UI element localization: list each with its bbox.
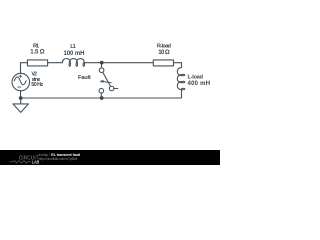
V2 plus sign bbox=[19, 75, 22, 78]
svg-text:L1: L1 bbox=[70, 44, 75, 50]
resistor R-load bbox=[153, 60, 173, 66]
svg-text:http://circuitlab.com/c/7p65ct: http://circuitlab.com/c/7p65ct bbox=[39, 157, 79, 161]
wire L1 to R-load bbox=[84, 62, 153, 64]
switch actuator line bbox=[114, 88, 118, 90]
switch arrow head bbox=[99, 80, 103, 83]
svg-text:50 Hz: 50 Hz bbox=[31, 82, 43, 88]
resistor R1 bbox=[27, 60, 47, 66]
inductor L-load bbox=[177, 68, 185, 90]
wire bottom bbox=[21, 97, 182, 99]
svg-text:100 mH: 100 mH bbox=[64, 51, 85, 57]
switch bottom stub bbox=[100, 93, 102, 98]
svg-text:400 mH: 400 mH bbox=[188, 81, 211, 87]
ground bbox=[13, 98, 29, 112]
V2 minus sign bbox=[18, 86, 21, 88]
svg-text:Fault: Fault bbox=[78, 75, 91, 81]
V2 sine wave bbox=[14, 77, 26, 85]
svg-text:R1: R1 bbox=[33, 44, 39, 50]
svg-text:R-load: R-load bbox=[157, 44, 172, 50]
junction dot top bbox=[100, 61, 104, 65]
wire top-left corner bbox=[21, 63, 28, 74]
wire R-load to right rail bbox=[174, 63, 182, 68]
svg-text:10 Ω: 10 Ω bbox=[158, 50, 170, 56]
svg-text:1.5 Ω: 1.5 Ω bbox=[30, 50, 44, 56]
wire right rail bottom bbox=[181, 90, 183, 98]
svg-text:L-load: L-load bbox=[188, 74, 204, 80]
junction dot ground bbox=[19, 96, 23, 100]
V2 bottom stub bbox=[20, 91, 22, 98]
wire R1 to L1 bbox=[48, 62, 63, 64]
switch bottom circle bbox=[99, 88, 104, 93]
footer bar bbox=[0, 150, 220, 165]
switch blade bbox=[103, 72, 111, 86]
switch top circle bbox=[99, 68, 104, 73]
switch arrow line bbox=[104, 82, 112, 83]
switch Fault top stub bbox=[101, 63, 103, 68]
junction dot bottom bbox=[100, 96, 104, 100]
inductor L1 bbox=[62, 59, 84, 67]
logo resistor zigzag bbox=[10, 161, 31, 164]
source V2 circle bbox=[12, 73, 30, 91]
switch blade-end circle bbox=[109, 86, 114, 91]
